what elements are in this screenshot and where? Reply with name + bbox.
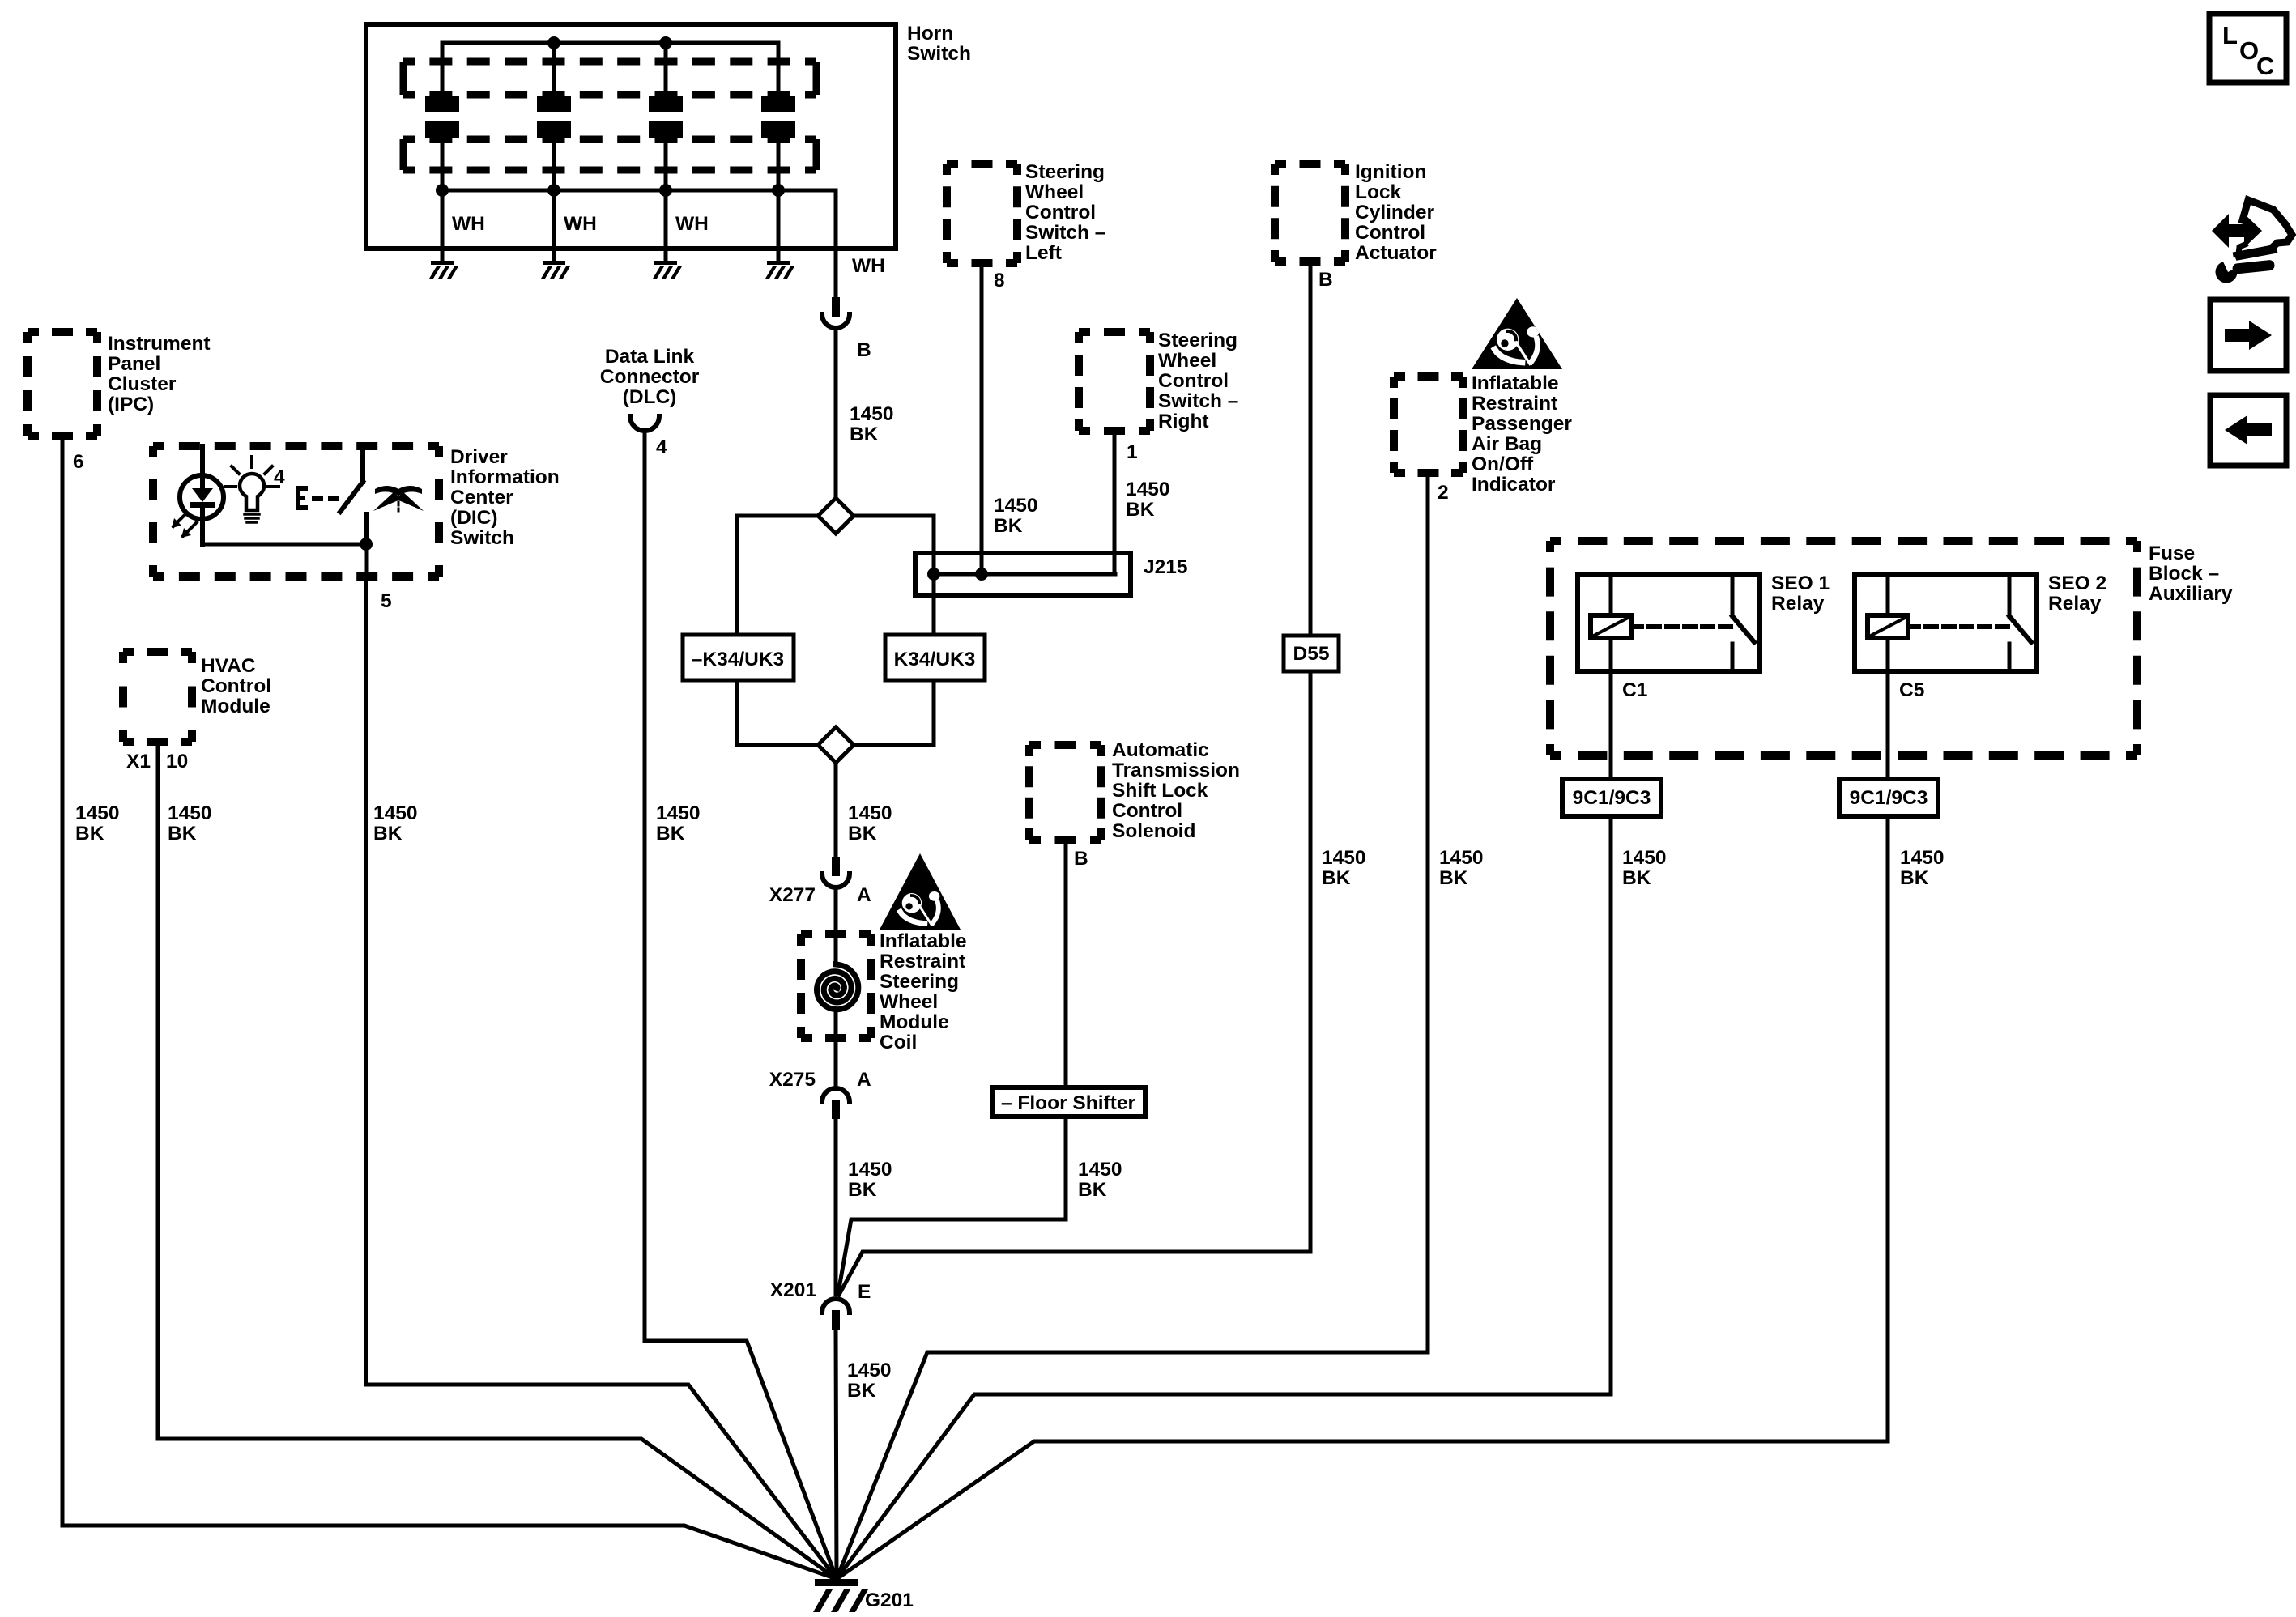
svg-text:Switch –: Switch –	[1158, 390, 1238, 412]
svg-text:–K34/UK3: –K34/UK3	[692, 649, 784, 670]
svg-text:BK: BK	[1322, 867, 1351, 889]
svg-text:Passenger: Passenger	[1472, 413, 1572, 435]
svg-text:10: 10	[166, 751, 188, 772]
svg-text:Module: Module	[201, 696, 270, 717]
svg-text:Left: Left	[1025, 242, 1062, 264]
svg-text:A: A	[857, 1069, 871, 1091]
svg-text:BK: BK	[1439, 867, 1468, 889]
svg-text:BK: BK	[1078, 1179, 1107, 1201]
svg-text:Inflatable: Inflatable	[880, 930, 967, 952]
svg-text:Shift Lock: Shift Lock	[1112, 780, 1208, 802]
svg-text:SEO 1: SEO 1	[1771, 572, 1830, 594]
svg-text:– Floor Shifter: – Floor Shifter	[1001, 1092, 1136, 1114]
svg-text:Switch: Switch	[907, 43, 971, 65]
svg-text:Block –: Block –	[2149, 563, 2219, 585]
svg-text:Instrument: Instrument	[108, 333, 211, 355]
svg-text:Automatic: Automatic	[1112, 739, 1209, 761]
svg-text:Wheel: Wheel	[1158, 350, 1216, 372]
svg-text:8: 8	[994, 270, 1005, 291]
svg-text:A: A	[857, 884, 871, 906]
svg-text:HVAC: HVAC	[201, 655, 256, 677]
svg-text:G201: G201	[865, 1589, 914, 1611]
svg-text:Wheel: Wheel	[880, 991, 938, 1013]
svg-text:BK: BK	[1900, 867, 1929, 889]
svg-text:1450: 1450	[75, 802, 120, 824]
svg-text:Relay: Relay	[2048, 593, 2102, 615]
svg-text:Ignition: Ignition	[1355, 161, 1426, 183]
svg-text:Steering: Steering	[1025, 161, 1105, 183]
svg-text:Right: Right	[1158, 411, 1209, 432]
svg-text:K34/UK3: K34/UK3	[894, 649, 976, 670]
svg-text:1450: 1450	[847, 1360, 892, 1381]
svg-text:(DLC): (DLC)	[623, 386, 677, 408]
svg-text:BK: BK	[656, 823, 685, 845]
svg-text:Transmission: Transmission	[1112, 760, 1240, 781]
svg-text:BK: BK	[848, 1179, 877, 1201]
svg-text:1450: 1450	[1622, 847, 1667, 869]
svg-text:C: C	[2256, 52, 2274, 80]
svg-text:(IPC): (IPC)	[108, 394, 154, 415]
svg-text:1450: 1450	[1322, 847, 1366, 869]
svg-text:X277: X277	[769, 884, 816, 906]
svg-text:BK: BK	[850, 423, 879, 445]
svg-text:Connector: Connector	[600, 366, 700, 388]
svg-text:Air Bag: Air Bag	[1472, 433, 1542, 455]
svg-text:BK: BK	[848, 823, 877, 845]
svg-text:BK: BK	[168, 823, 197, 845]
svg-text:Control: Control	[201, 675, 271, 697]
svg-text:1450: 1450	[656, 802, 701, 824]
svg-text:B: B	[1074, 848, 1088, 870]
svg-text:9C1/9C3: 9C1/9C3	[1850, 787, 1928, 809]
svg-text:Steering: Steering	[880, 971, 959, 993]
svg-text:Control: Control	[1112, 800, 1182, 822]
svg-text:Steering: Steering	[1158, 330, 1237, 351]
svg-text:Indicator: Indicator	[1472, 474, 1556, 496]
svg-text:Horn: Horn	[907, 23, 953, 45]
svg-text:WH: WH	[564, 213, 597, 235]
svg-text:1450: 1450	[850, 403, 894, 425]
svg-text:Wheel: Wheel	[1025, 181, 1084, 203]
svg-text:Information: Information	[450, 466, 560, 488]
svg-text:1450: 1450	[1439, 847, 1484, 869]
svg-text:Lock: Lock	[1355, 181, 1402, 203]
svg-text:B: B	[857, 339, 871, 361]
svg-text:On/Off: On/Off	[1472, 453, 1534, 475]
svg-text:BK: BK	[994, 515, 1023, 537]
svg-text:BK: BK	[847, 1380, 876, 1402]
svg-text:5: 5	[381, 590, 392, 612]
svg-text:9C1/9C3: 9C1/9C3	[1573, 787, 1651, 809]
svg-text:1450: 1450	[1900, 847, 1945, 869]
svg-text:Restraint: Restraint	[880, 951, 965, 972]
svg-text:Control: Control	[1355, 222, 1425, 244]
svg-text:WH: WH	[852, 255, 885, 277]
svg-text:Restraint: Restraint	[1472, 393, 1557, 415]
svg-text:L: L	[2222, 21, 2238, 49]
svg-text:Panel: Panel	[108, 353, 160, 375]
svg-text:D55: D55	[1293, 643, 1330, 665]
svg-text:Actuator: Actuator	[1355, 242, 1437, 264]
svg-text:E: E	[858, 1281, 871, 1303]
svg-text:1450: 1450	[848, 802, 892, 824]
svg-text:Fuse: Fuse	[2149, 543, 2195, 564]
svg-text:Data Link: Data Link	[605, 346, 695, 368]
svg-text:Solenoid: Solenoid	[1112, 820, 1195, 842]
svg-text:Coil: Coil	[880, 1032, 917, 1053]
svg-text:BK: BK	[373, 823, 403, 845]
svg-text:BK: BK	[75, 823, 104, 845]
svg-text:(DIC): (DIC)	[450, 507, 498, 529]
svg-text:BK: BK	[1126, 499, 1155, 521]
svg-text:1450: 1450	[1078, 1159, 1122, 1181]
svg-text:1: 1	[1127, 441, 1138, 463]
svg-text:Control: Control	[1025, 202, 1096, 223]
svg-text:Center: Center	[450, 487, 513, 509]
svg-text:Auxiliary: Auxiliary	[2149, 583, 2233, 605]
svg-text:1450: 1450	[994, 495, 1038, 517]
svg-text:C5: C5	[1899, 679, 1924, 701]
svg-text:6: 6	[73, 451, 84, 473]
svg-text:Control: Control	[1158, 370, 1229, 392]
svg-text:Driver: Driver	[450, 446, 508, 468]
svg-text:1450: 1450	[848, 1159, 892, 1181]
svg-text:Cylinder: Cylinder	[1355, 202, 1434, 223]
svg-text:1450: 1450	[373, 802, 418, 824]
svg-text:4: 4	[656, 436, 667, 458]
svg-text:WH: WH	[675, 213, 709, 235]
svg-text:1450: 1450	[1126, 479, 1170, 500]
svg-text:Module: Module	[880, 1011, 949, 1033]
svg-text:2: 2	[1438, 482, 1449, 504]
svg-text:SEO 2: SEO 2	[2048, 572, 2106, 594]
svg-text:B: B	[1318, 269, 1333, 291]
svg-text:4: 4	[274, 466, 285, 488]
svg-text:Switch: Switch	[450, 527, 514, 549]
svg-text:BK: BK	[1622, 867, 1651, 889]
svg-text:C1: C1	[1622, 679, 1647, 701]
svg-text:1450: 1450	[168, 802, 212, 824]
svg-text:X275: X275	[769, 1069, 816, 1091]
svg-text:Cluster: Cluster	[108, 373, 177, 395]
svg-text:X201: X201	[770, 1279, 816, 1301]
svg-text:Relay: Relay	[1771, 593, 1825, 615]
svg-text:Switch –: Switch –	[1025, 222, 1105, 244]
svg-text:WH: WH	[452, 213, 485, 235]
svg-text:X1: X1	[126, 751, 151, 772]
svg-text:J215: J215	[1144, 556, 1188, 578]
svg-text:Inflatable: Inflatable	[1472, 372, 1559, 394]
